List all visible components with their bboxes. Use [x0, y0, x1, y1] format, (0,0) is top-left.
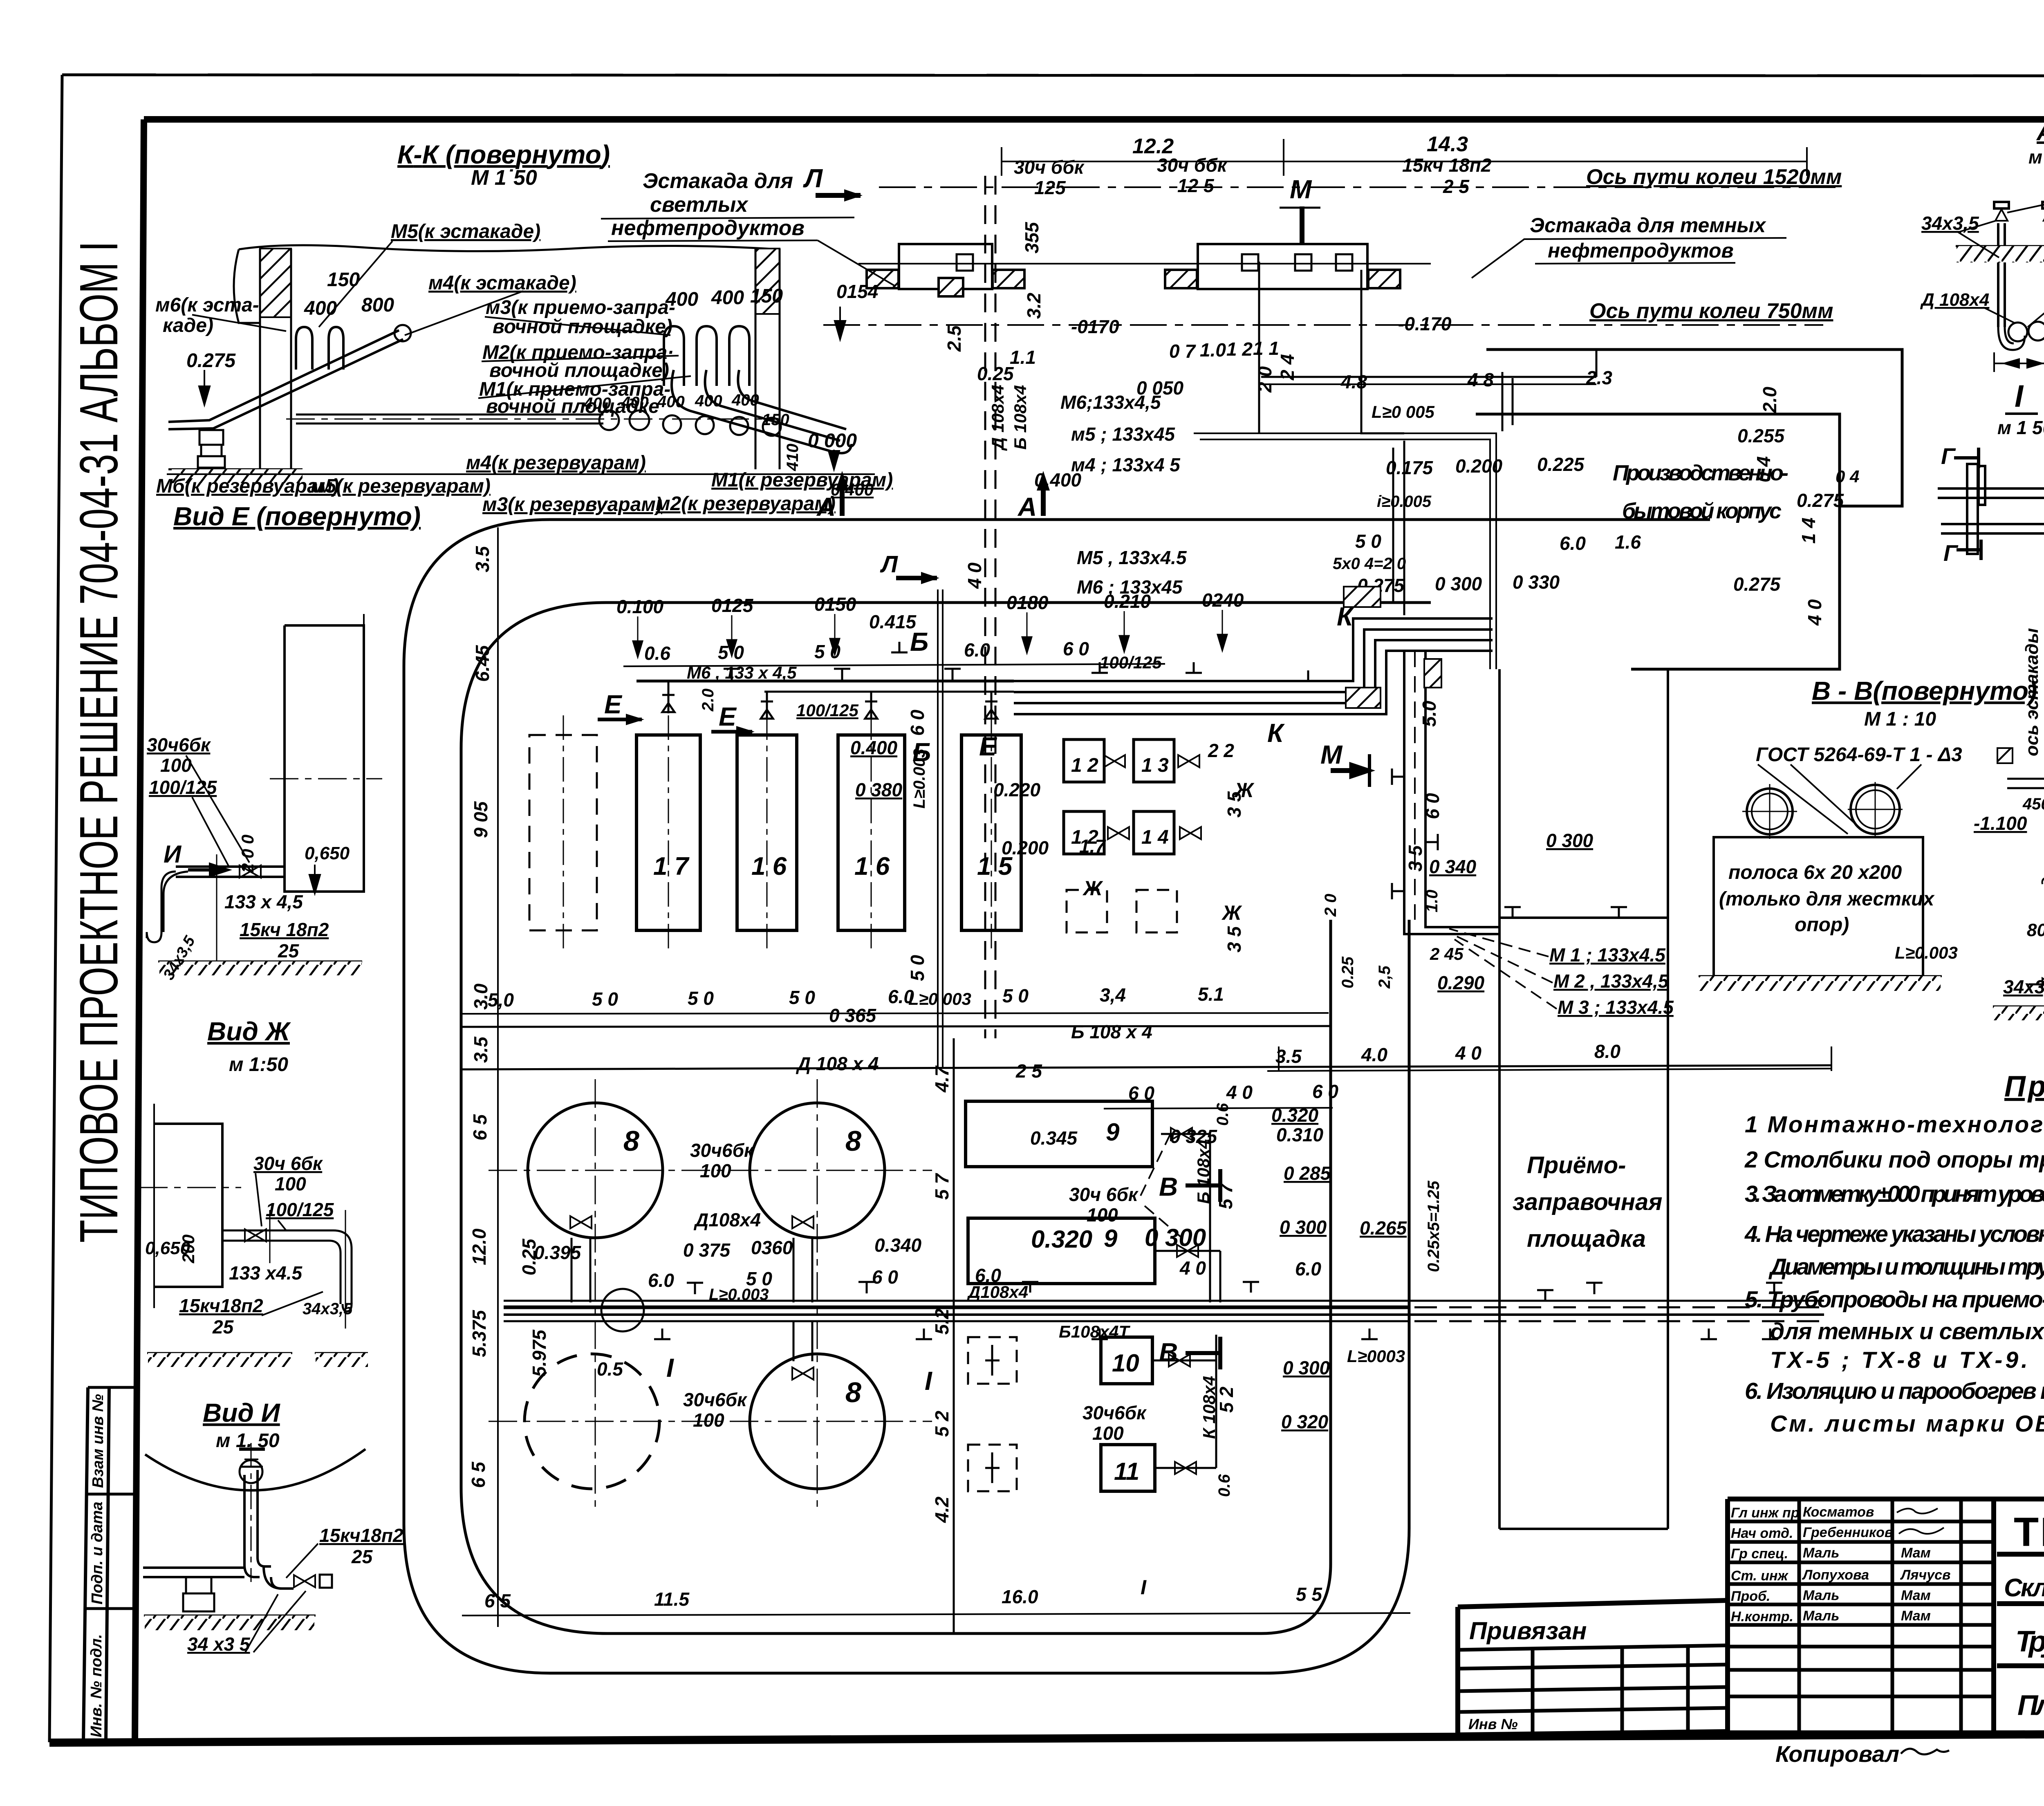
svg-text:нефтепродуктов: нефтепродуктов — [611, 216, 805, 240]
svg-text:1 2: 1 2 — [1226, 338, 1253, 360]
svg-text:0 320: 0 320 — [1281, 1411, 1329, 1432]
svg-text:133 х 4,5: 133 х 4,5 — [224, 891, 303, 912]
svg-text:6.0: 6.0 — [1560, 533, 1586, 554]
svg-text:9 05: 9 05 — [470, 801, 491, 838]
svg-text:100: 100 — [275, 1173, 306, 1194]
svg-text:В: В — [1159, 1172, 1178, 1201]
svg-text:400: 400 — [304, 298, 337, 319]
svg-text:0 300: 0 300 — [1280, 1217, 1327, 1238]
svg-text:100/125: 100/125 — [149, 777, 217, 798]
svg-text:8: 8 — [845, 1376, 861, 1408]
svg-text:8: 8 — [845, 1125, 861, 1157]
svg-text:0.340: 0.340 — [874, 1235, 922, 1256]
svg-text:И: И — [164, 840, 182, 868]
svg-text:Н.контр.: Н.контр. — [1731, 1609, 1793, 1625]
svg-text:5,0: 5,0 — [488, 989, 514, 1011]
svg-text:Склад нефтепродуктов емк 1тыс.: Склад нефтепродуктов емк 1тыс.куб.м — [2004, 1574, 2044, 1602]
svg-text:0.320: 0.320 — [1031, 1226, 1092, 1253]
svg-text:1.1: 1.1 — [1010, 347, 1036, 368]
svg-text:0 300: 0 300 — [1435, 573, 1482, 594]
svg-text:5. Трубопроводы на приемо: 5. Трубопроводы на приемо-заправочной пл… — [1745, 1286, 2044, 1313]
svg-text:(только для жестких: (только для жестких — [1719, 888, 1935, 910]
svg-text:0 300: 0 300 — [1145, 1224, 1206, 1251]
svg-text:Маль: Маль — [1803, 1545, 1839, 1561]
svg-text:6 0: 6 0 — [1312, 1081, 1338, 1102]
svg-text:Л: Л — [803, 164, 823, 193]
svg-text:Диаметры и толщины труб ука: Диаметры и толщины труб указаны в мм; ос… — [1768, 1254, 2044, 1280]
svg-text:Вид И: Вид И — [203, 1398, 281, 1427]
svg-text:В - В(повернуто): В - В(повернуто) — [1812, 676, 2037, 706]
svg-text:133 х4.5: 133 х4.5 — [229, 1262, 303, 1284]
svg-text:М 1˙50: М 1˙50 — [471, 166, 537, 190]
svg-text:Ось пути колеи 1520мм: Ось пути колеи 1520мм — [1586, 165, 1842, 189]
svg-text:800: 800 — [361, 294, 394, 316]
svg-text:0240: 0240 — [1202, 589, 1244, 611]
svg-text:Б 108х4: Б 108х4 — [1194, 1139, 1213, 1204]
svg-text:0 340: 0 340 — [1429, 856, 1477, 877]
svg-text:0.400: 0.400 — [1034, 469, 1082, 491]
svg-text:3.0: 3.0 — [470, 984, 491, 1010]
svg-text:0.5: 0.5 — [597, 1358, 623, 1380]
svg-text:0 000: 0 000 — [808, 430, 857, 452]
svg-text:5 0: 5 0 — [789, 987, 815, 1008]
svg-text:I: I — [666, 1353, 674, 1383]
svg-text:0.220: 0.220 — [993, 779, 1041, 800]
svg-text:1 1: 1 1 — [1253, 338, 1279, 359]
svg-text:К-К (повернуто): К-К (повернуто) — [397, 140, 610, 169]
svg-text:2 0: 2 0 — [1254, 366, 1275, 393]
svg-text:Маль: Маль — [1803, 1608, 1839, 1624]
svg-text:3. За отметку±000 принят у: 3. За отметку±000 принят уровень пола пр… — [1745, 1181, 2044, 1207]
svg-text:М6 ; 133х45: М6 ; 133х45 — [1077, 576, 1183, 598]
svg-text:Лячусв: Лячусв — [1900, 1567, 1951, 1583]
svg-text:6 0: 6 0 — [1422, 793, 1443, 819]
svg-text:0 300: 0 300 — [1546, 830, 1594, 851]
svg-text:5.375: 5.375 — [468, 1309, 490, 1357]
svg-text:Д108х4: Д108х4 — [693, 1209, 761, 1230]
svg-text:355: 355 — [1021, 222, 1042, 253]
svg-text:30ч6бк: 30ч6бк — [1083, 1402, 1147, 1423]
svg-text:12 5: 12 5 — [1177, 175, 1215, 196]
svg-text:14.3: 14.3 — [1427, 132, 1468, 156]
svg-text:0.320: 0.320 — [1271, 1105, 1319, 1126]
svg-text:Лопухова: Лопухова — [1802, 1567, 1869, 1583]
svg-text:К 108х4: К 108х4 — [1199, 1376, 1219, 1439]
svg-text:ГОСТ 5264-69-Т 1 - Δ3: ГОСТ 5264-69-Т 1 - Δ3 — [1756, 744, 1962, 766]
svg-text:заправочная: заправочная — [1513, 1189, 1662, 1215]
svg-text:Д 108х4: Д 108х4 — [988, 385, 1007, 451]
svg-text:Эстакада для темных: Эстакада для темных — [1530, 214, 1766, 237]
svg-text:5 0: 5 0 — [1355, 531, 1381, 552]
svg-text:0 375: 0 375 — [683, 1239, 731, 1261]
svg-text:34х3,5: 34х3,5 — [303, 1300, 353, 1318]
svg-text:Д 108х4: Д 108х4 — [1920, 290, 1989, 310]
svg-text:25: 25 — [351, 1546, 373, 1567]
svg-text:для темных и светлых н: для темных и светлых нефтепродуктов см л… — [1770, 1318, 2044, 1344]
svg-text:400: 400 — [657, 393, 685, 411]
svg-text:3 5: 3 5 — [1405, 845, 1426, 872]
svg-text:5 2: 5 2 — [1216, 1387, 1237, 1413]
svg-text:5 0: 5 0 — [688, 988, 714, 1009]
svg-text:А: А — [1017, 492, 1037, 522]
svg-text:-0.170: -0.170 — [1398, 313, 1452, 334]
svg-text:0.200: 0.200 — [1002, 837, 1049, 858]
svg-text:6.0: 6.0 — [964, 639, 990, 661]
svg-text:3.5: 3.5 — [472, 546, 493, 572]
svg-text:10: 10 — [1112, 1349, 1139, 1377]
svg-text:0.225: 0.225 — [1537, 454, 1585, 475]
svg-text:6.0: 6.0 — [648, 1270, 674, 1291]
svg-text:м4 ; 133х4 5: м4 ; 133х4 5 — [1071, 454, 1181, 475]
svg-text:3 5: 3 5 — [1224, 926, 1245, 952]
svg-text:Е: Е — [604, 690, 623, 719]
svg-text:Проб.: Проб. — [1731, 1589, 1771, 1604]
svg-text:м5(к резервуарам): м5(к резервуарам) — [311, 475, 491, 497]
svg-text:Вид Ж: Вид Ж — [207, 1017, 291, 1046]
svg-text:9: 9 — [1104, 1225, 1118, 1252]
svg-text:М5(к эстакаде): М5(к эстакаде) — [391, 221, 540, 242]
svg-text:100/125: 100/125 — [1100, 653, 1162, 672]
svg-text:15кч18п2: 15кч18п2 — [179, 1295, 263, 1316]
svg-text:I: I — [2015, 379, 2024, 414]
svg-text:0.25х5=1.25: 0.25х5=1.25 — [1425, 1181, 1443, 1272]
svg-text:25: 25 — [278, 940, 300, 961]
svg-text:0.25: 0.25 — [1339, 956, 1357, 988]
svg-text:15кч 18п2: 15кч 18п2 — [240, 919, 329, 940]
svg-text:0180: 0180 — [1006, 592, 1049, 613]
svg-text:м4(к резервуарам): м4(к резервуарам) — [466, 452, 646, 474]
svg-text:400: 400 — [621, 394, 649, 412]
svg-text:I: I — [1141, 1576, 1147, 1599]
svg-text:каде): каде) — [163, 315, 213, 336]
svg-text:М5 , 133х4.5: М5 , 133х4.5 — [1077, 547, 1187, 568]
svg-text:Л: Л — [880, 551, 898, 578]
svg-text:4 0: 4 0 — [1226, 1082, 1253, 1103]
svg-text:11.5: 11.5 — [654, 1589, 690, 1610]
svg-text:100/125: 100/125 — [796, 701, 858, 720]
svg-text:М 3 ; 133х4.5: М 3 ; 133х4.5 — [1558, 997, 1674, 1018]
svg-text:Ж: Ж — [1221, 901, 1242, 924]
svg-text:150: 150 — [750, 285, 783, 307]
svg-text:34х3,5: 34х3,5 — [2003, 976, 2044, 997]
svg-text:2.0: 2.0 — [699, 688, 717, 712]
svg-text:6 0: 6 0 — [872, 1266, 898, 1288]
svg-text:Трубопроводы: Трубопроводы — [2015, 1625, 2044, 1658]
svg-text:М 1 : 10: М 1 : 10 — [1864, 708, 1936, 730]
svg-text:1.6: 1.6 — [1615, 531, 1641, 553]
svg-text:К: К — [1267, 718, 1285, 748]
svg-text:м3(к приемо-запра-: м3(к приемо-запра- — [486, 297, 675, 318]
svg-text:-0170: -0170 — [1071, 316, 1119, 337]
svg-text:0.290: 0.290 — [1437, 972, 1485, 993]
svg-text:Привязан: Привязан — [1469, 1617, 1587, 1645]
svg-text:М6 , 133 х 4,5: М6 , 133 х 4,5 — [687, 663, 797, 682]
svg-text:2 5: 2 5 — [1015, 1060, 1042, 1082]
svg-text:L≥0.003: L≥0.003 — [1895, 943, 1958, 962]
svg-text:5 0: 5 0 — [1002, 985, 1029, 1006]
svg-text:4 0: 4 0 — [1179, 1257, 1206, 1279]
svg-text:0.265: 0.265 — [1360, 1217, 1407, 1239]
svg-text:Взам инв №: Взам инв № — [90, 1394, 107, 1488]
svg-text:ТХ-5 ; ТХ-8 и ТХ-9.: ТХ-5 ; ТХ-8 и ТХ-9. — [1770, 1347, 2028, 1373]
svg-text:3.5: 3.5 — [470, 1036, 491, 1063]
svg-text:34х3,5: 34х3,5 — [1921, 213, 1979, 234]
svg-text:400: 400 — [711, 287, 744, 309]
svg-text:0.345: 0.345 — [1030, 1127, 1078, 1149]
svg-text:5.0: 5.0 — [1419, 701, 1440, 727]
svg-text:L≥0003: L≥0003 — [1347, 1347, 1405, 1366]
svg-text:1.7: 1.7 — [1079, 836, 1106, 857]
svg-text:L≥0.003: L≥0.003 — [709, 1286, 769, 1304]
svg-text:0,650: 0,650 — [305, 843, 350, 863]
svg-text:4. На чертеже указаны условны: 4. На чертеже указаны условные отметки н… — [1744, 1221, 2044, 1247]
svg-text:1.0: 1.0 — [1200, 339, 1226, 361]
svg-text:0.275: 0.275 — [1733, 574, 1781, 595]
svg-text:2.5: 2.5 — [944, 325, 965, 352]
svg-text:2.0: 2.0 — [1759, 387, 1780, 413]
svg-text:0.275: 0.275 — [186, 350, 236, 372]
svg-text:м 1:50: м 1:50 — [229, 1054, 288, 1076]
svg-text:410: 410 — [784, 444, 802, 471]
svg-text:Производственно-: Производственно- — [1613, 461, 1788, 485]
svg-text:100: 100 — [1092, 1423, 1124, 1444]
svg-text:2,5: 2,5 — [1376, 966, 1394, 989]
svg-text:Эстакада для: Эстакада для — [643, 169, 793, 193]
svg-text:Б: Б — [912, 737, 931, 767]
svg-text:М6;133х4,5: М6;133х4,5 — [1060, 392, 1161, 413]
svg-text:опор): опор) — [1795, 914, 1849, 936]
svg-text:М: М — [1320, 740, 1343, 769]
svg-text:М: М — [1290, 175, 1312, 204]
svg-text:15кч 18п2: 15кч 18п2 — [1402, 155, 1492, 176]
svg-text:4.8: 4.8 — [1340, 371, 1367, 392]
svg-text:Подп. и дата: Подп. и дата — [89, 1501, 106, 1604]
svg-text:М 2 , 133х4,5: М 2 , 133х4,5 — [1553, 970, 1669, 992]
svg-text:6 0: 6 0 — [907, 710, 928, 736]
svg-text:30ч 6бк: 30ч 6бк — [253, 1153, 323, 1174]
svg-text:м3(к резервуарам): м3(к резервуарам) — [482, 494, 662, 515]
svg-text:Гребенников: Гребенников — [1803, 1525, 1893, 1540]
svg-text:Г: Г — [1943, 540, 1959, 566]
svg-text:1 4: 1 4 — [1798, 518, 1819, 544]
svg-text:Приёмо-: Приёмо- — [1527, 1152, 1626, 1179]
svg-text:8: 8 — [623, 1125, 639, 1157]
svg-text:400: 400 — [665, 289, 698, 310]
svg-text:1 Монтажно-технологическую: 1 Монтажно-технологическую схему см лист… — [1745, 1111, 2044, 1138]
svg-text:Мам: Мам — [1901, 1588, 1931, 1603]
svg-text:Д108х4: Д108х4 — [967, 1282, 1028, 1302]
svg-text:Ось пути колеи 750мм: Ось пути колеи 750мм — [1589, 299, 1833, 323]
svg-text:Примечания: Примечания — [2004, 1070, 2044, 1103]
svg-text:12.0: 12.0 — [468, 1228, 490, 1265]
svg-text:2 45: 2 45 — [1430, 944, 1464, 963]
svg-text:-1.100: -1.100 — [1974, 813, 2027, 834]
svg-text:Инв №: Инв № — [1468, 1716, 1518, 1732]
svg-text:30ч ббк: 30ч ббк — [1014, 157, 1085, 178]
svg-text:0 285: 0 285 — [1284, 1163, 1331, 1184]
svg-text:5 5: 5 5 — [1296, 1584, 1322, 1605]
svg-text:100: 100 — [693, 1409, 724, 1431]
svg-text:6 5: 6 5 — [469, 1114, 491, 1141]
svg-text:0.275: 0.275 — [1797, 490, 1845, 511]
svg-text:Ст. инж: Ст. инж — [1731, 1568, 1789, 1584]
svg-text:м4(к эстакаде): м4(к эстакаде) — [428, 272, 576, 294]
svg-text:1 6: 1 6 — [751, 852, 787, 881]
svg-text:30ч6бк: 30ч6бк — [683, 1389, 748, 1410]
svg-text:6 5: 6 5 — [468, 1461, 489, 1488]
svg-text:5.975: 5.975 — [529, 1329, 550, 1377]
svg-text:450: 450 — [2022, 795, 2044, 813]
svg-text:0154: 0154 — [836, 281, 878, 302]
svg-text:25: 25 — [212, 1316, 234, 1338]
svg-text:2 2: 2 2 — [1208, 740, 1234, 761]
svg-text:400: 400 — [731, 391, 759, 409]
svg-text:5.1: 5.1 — [1198, 984, 1224, 1005]
svg-text:200: 200 — [179, 1235, 198, 1264]
svg-text:Нач отд.: Нач отд. — [1731, 1526, 1793, 1541]
svg-text:1.0: 1.0 — [1423, 890, 1441, 912]
svg-text:бытовой корпус: бытовой корпус — [1622, 499, 1782, 523]
svg-text:0.6: 0.6 — [644, 643, 670, 664]
svg-text:Б: Б — [910, 627, 928, 657]
svg-text:Гл инж пр: Гл инж пр — [1731, 1505, 1800, 1521]
svg-text:0 7: 0 7 — [1169, 341, 1196, 362]
svg-text:Ж: Ж — [1082, 877, 1103, 900]
svg-text:0125: 0125 — [711, 595, 754, 616]
svg-text:30ч 6бк: 30ч 6бк — [1069, 1184, 1139, 1205]
svg-text:6. Изоляцию и парообогрев: 6. Изоляцию и парообогрев трубопроводов … — [1745, 1378, 2044, 1404]
svg-text:1 3: 1 3 — [1141, 755, 1169, 776]
svg-text:9: 9 — [1106, 1118, 1120, 1146]
svg-text:5 0: 5 0 — [907, 955, 928, 981]
svg-text:400: 400 — [583, 394, 611, 412]
svg-text:80: 80 — [2027, 920, 2044, 940]
svg-text:30ч ббк: 30ч ббк — [1157, 155, 1228, 176]
svg-text:16.0: 16.0 — [1002, 1586, 1038, 1607]
svg-text:0 300: 0 300 — [1283, 1357, 1330, 1378]
svg-text:6.45: 6.45 — [472, 645, 493, 682]
svg-text:L≥0 003: L≥0 003 — [908, 989, 971, 1008]
svg-text:6 0: 6 0 — [1128, 1082, 1154, 1104]
svg-text:0 365: 0 365 — [829, 1005, 877, 1026]
svg-text:м5 ; 133х45: м5 ; 133х45 — [1071, 423, 1175, 445]
svg-text:2 Столбики под опоры тру: 2 Столбики под опоры труб см листы марки… — [1744, 1147, 2044, 1173]
svg-text:Копировал: Копировал — [1775, 1741, 1899, 1767]
svg-text:А-А: А-А — [2036, 118, 2044, 146]
svg-text:1 7: 1 7 — [653, 852, 690, 881]
svg-text:м 1 50: м 1 50 — [2028, 146, 2044, 168]
svg-text:Маль: Маль — [1803, 1588, 1839, 1603]
svg-text:4.0: 4.0 — [1361, 1044, 1387, 1065]
svg-text:светлых: светлых — [650, 193, 749, 217]
svg-text:3.2: 3.2 — [1023, 293, 1044, 319]
svg-text:100/125: 100/125 — [266, 1199, 334, 1220]
svg-text:11: 11 — [1114, 1458, 1139, 1485]
svg-text:3,4: 3,4 — [1100, 984, 1126, 1006]
svg-text:1 4: 1 4 — [1141, 827, 1169, 848]
svg-text:5.2: 5.2 — [931, 1309, 953, 1335]
svg-text:Вид Е (повернуто): Вид Е (повернуто) — [173, 502, 421, 531]
svg-text:Б 108х4: Б 108х4 — [1011, 385, 1030, 450]
svg-text:30ч6бк: 30ч6бк — [690, 1140, 755, 1161]
svg-text:ТИПОВОЕ ПРОЕКТНОЕ РЕШЕНИЕ 704-: ТИПОВОЕ ПРОЕКТНОЕ РЕШЕНИЕ 704-04-31 АЛЬБ… — [69, 241, 129, 1243]
svg-text:34 х3 5: 34 х3 5 — [187, 1633, 251, 1655]
svg-text:5х0 4=2 0: 5х0 4=2 0 — [1333, 555, 1406, 573]
svg-text:м2(к резервуарам): м2(к резервуарам) — [656, 493, 836, 515]
svg-text:2 5: 2 5 — [1443, 176, 1470, 197]
svg-text:4 8: 4 8 — [1467, 369, 1494, 390]
svg-text:Инв. № подл.: Инв. № подл. — [88, 1634, 105, 1737]
svg-text:В: В — [1159, 1338, 1178, 1367]
svg-text:М1(к резервуарам): М1(к резервуарам) — [711, 469, 893, 491]
svg-text:L≥0 005: L≥0 005 — [1372, 402, 1434, 421]
svg-text:Мам: Мам — [1901, 1545, 1931, 1561]
svg-text:Д 108 х 4: Д 108 х 4 — [796, 1053, 879, 1074]
svg-text:4 0: 4 0 — [1455, 1042, 1481, 1064]
svg-text:2 0 0: 2 0 0 — [238, 835, 257, 873]
svg-text:I: I — [925, 1366, 932, 1396]
svg-text:План. Разрезы: План. Разрезы — [2017, 1689, 2044, 1721]
svg-text:6.0: 6.0 — [1295, 1258, 1321, 1279]
svg-text:5 7: 5 7 — [931, 1173, 953, 1200]
svg-text:5 2: 5 2 — [931, 1411, 953, 1437]
svg-text:0.395: 0.395 — [534, 1242, 582, 1263]
svg-text:0 380: 0 380 — [855, 779, 903, 800]
svg-text:полоса 6х 20 х200: полоса 6х 20 х200 — [1728, 862, 1902, 883]
svg-text:Мам: Мам — [1901, 1608, 1931, 1624]
svg-text:Б 108 х 4: Б 108 х 4 — [1071, 1021, 1152, 1042]
svg-text:0.100: 0.100 — [616, 596, 664, 617]
svg-text:0.6: 0.6 — [1215, 1474, 1233, 1497]
svg-text:нефтепродуктов: нефтепродуктов — [1548, 239, 1734, 262]
svg-text:15кч18п2: 15кч18п2 — [319, 1525, 403, 1546]
svg-text:См. листы марки ОВ.: См. листы марки ОВ. — [1770, 1411, 2044, 1437]
svg-text:0150: 0150 — [814, 594, 856, 615]
svg-text:Гр спец.: Гр спец. — [1731, 1546, 1788, 1562]
svg-text:4 0: 4 0 — [1804, 599, 1825, 626]
svg-text:0.400: 0.400 — [850, 737, 898, 758]
svg-text:0 330: 0 330 — [1513, 571, 1560, 593]
svg-text:6 0: 6 0 — [1063, 638, 1089, 659]
svg-text:М 1 ; 133х4.5: М 1 ; 133х4.5 — [1549, 944, 1666, 966]
svg-text:150: 150 — [762, 411, 789, 429]
svg-text:1 2: 1 2 — [1071, 755, 1098, 776]
svg-text:1 6: 1 6 — [854, 852, 890, 881]
svg-text:м6(к эста-: м6(к эста- — [155, 294, 259, 316]
svg-text:4.7: 4.7 — [931, 1065, 953, 1093]
svg-text:0.255: 0.255 — [1737, 425, 1785, 446]
svg-text:0360: 0360 — [751, 1237, 793, 1258]
svg-text:125: 125 — [1034, 177, 1066, 198]
svg-text:площадка: площадка — [1527, 1226, 1646, 1252]
svg-text:4 0: 4 0 — [964, 562, 985, 589]
svg-text:4.2: 4.2 — [931, 1497, 953, 1523]
svg-text:400: 400 — [695, 392, 722, 410]
svg-text:0.310: 0.310 — [1276, 1124, 1324, 1145]
svg-text:30ч6бк: 30ч6бк — [147, 734, 211, 755]
svg-text:8.0: 8.0 — [1594, 1041, 1620, 1062]
svg-text:Г: Г — [1941, 443, 1956, 469]
svg-text:м 1 50: м 1 50 — [1997, 417, 2044, 438]
svg-text:ось эстакады: ось эстакады — [2022, 628, 2042, 756]
svg-text:Е: Е — [719, 702, 737, 731]
svg-text:100: 100 — [700, 1160, 731, 1181]
svg-text:100: 100 — [1087, 1204, 1118, 1226]
svg-text:5 0: 5 0 — [592, 988, 618, 1010]
svg-text:3 5: 3 5 — [1224, 791, 1245, 818]
svg-text:Косматов: Косматов — [1803, 1504, 1874, 1520]
svg-text:2 0: 2 0 — [1322, 894, 1340, 917]
